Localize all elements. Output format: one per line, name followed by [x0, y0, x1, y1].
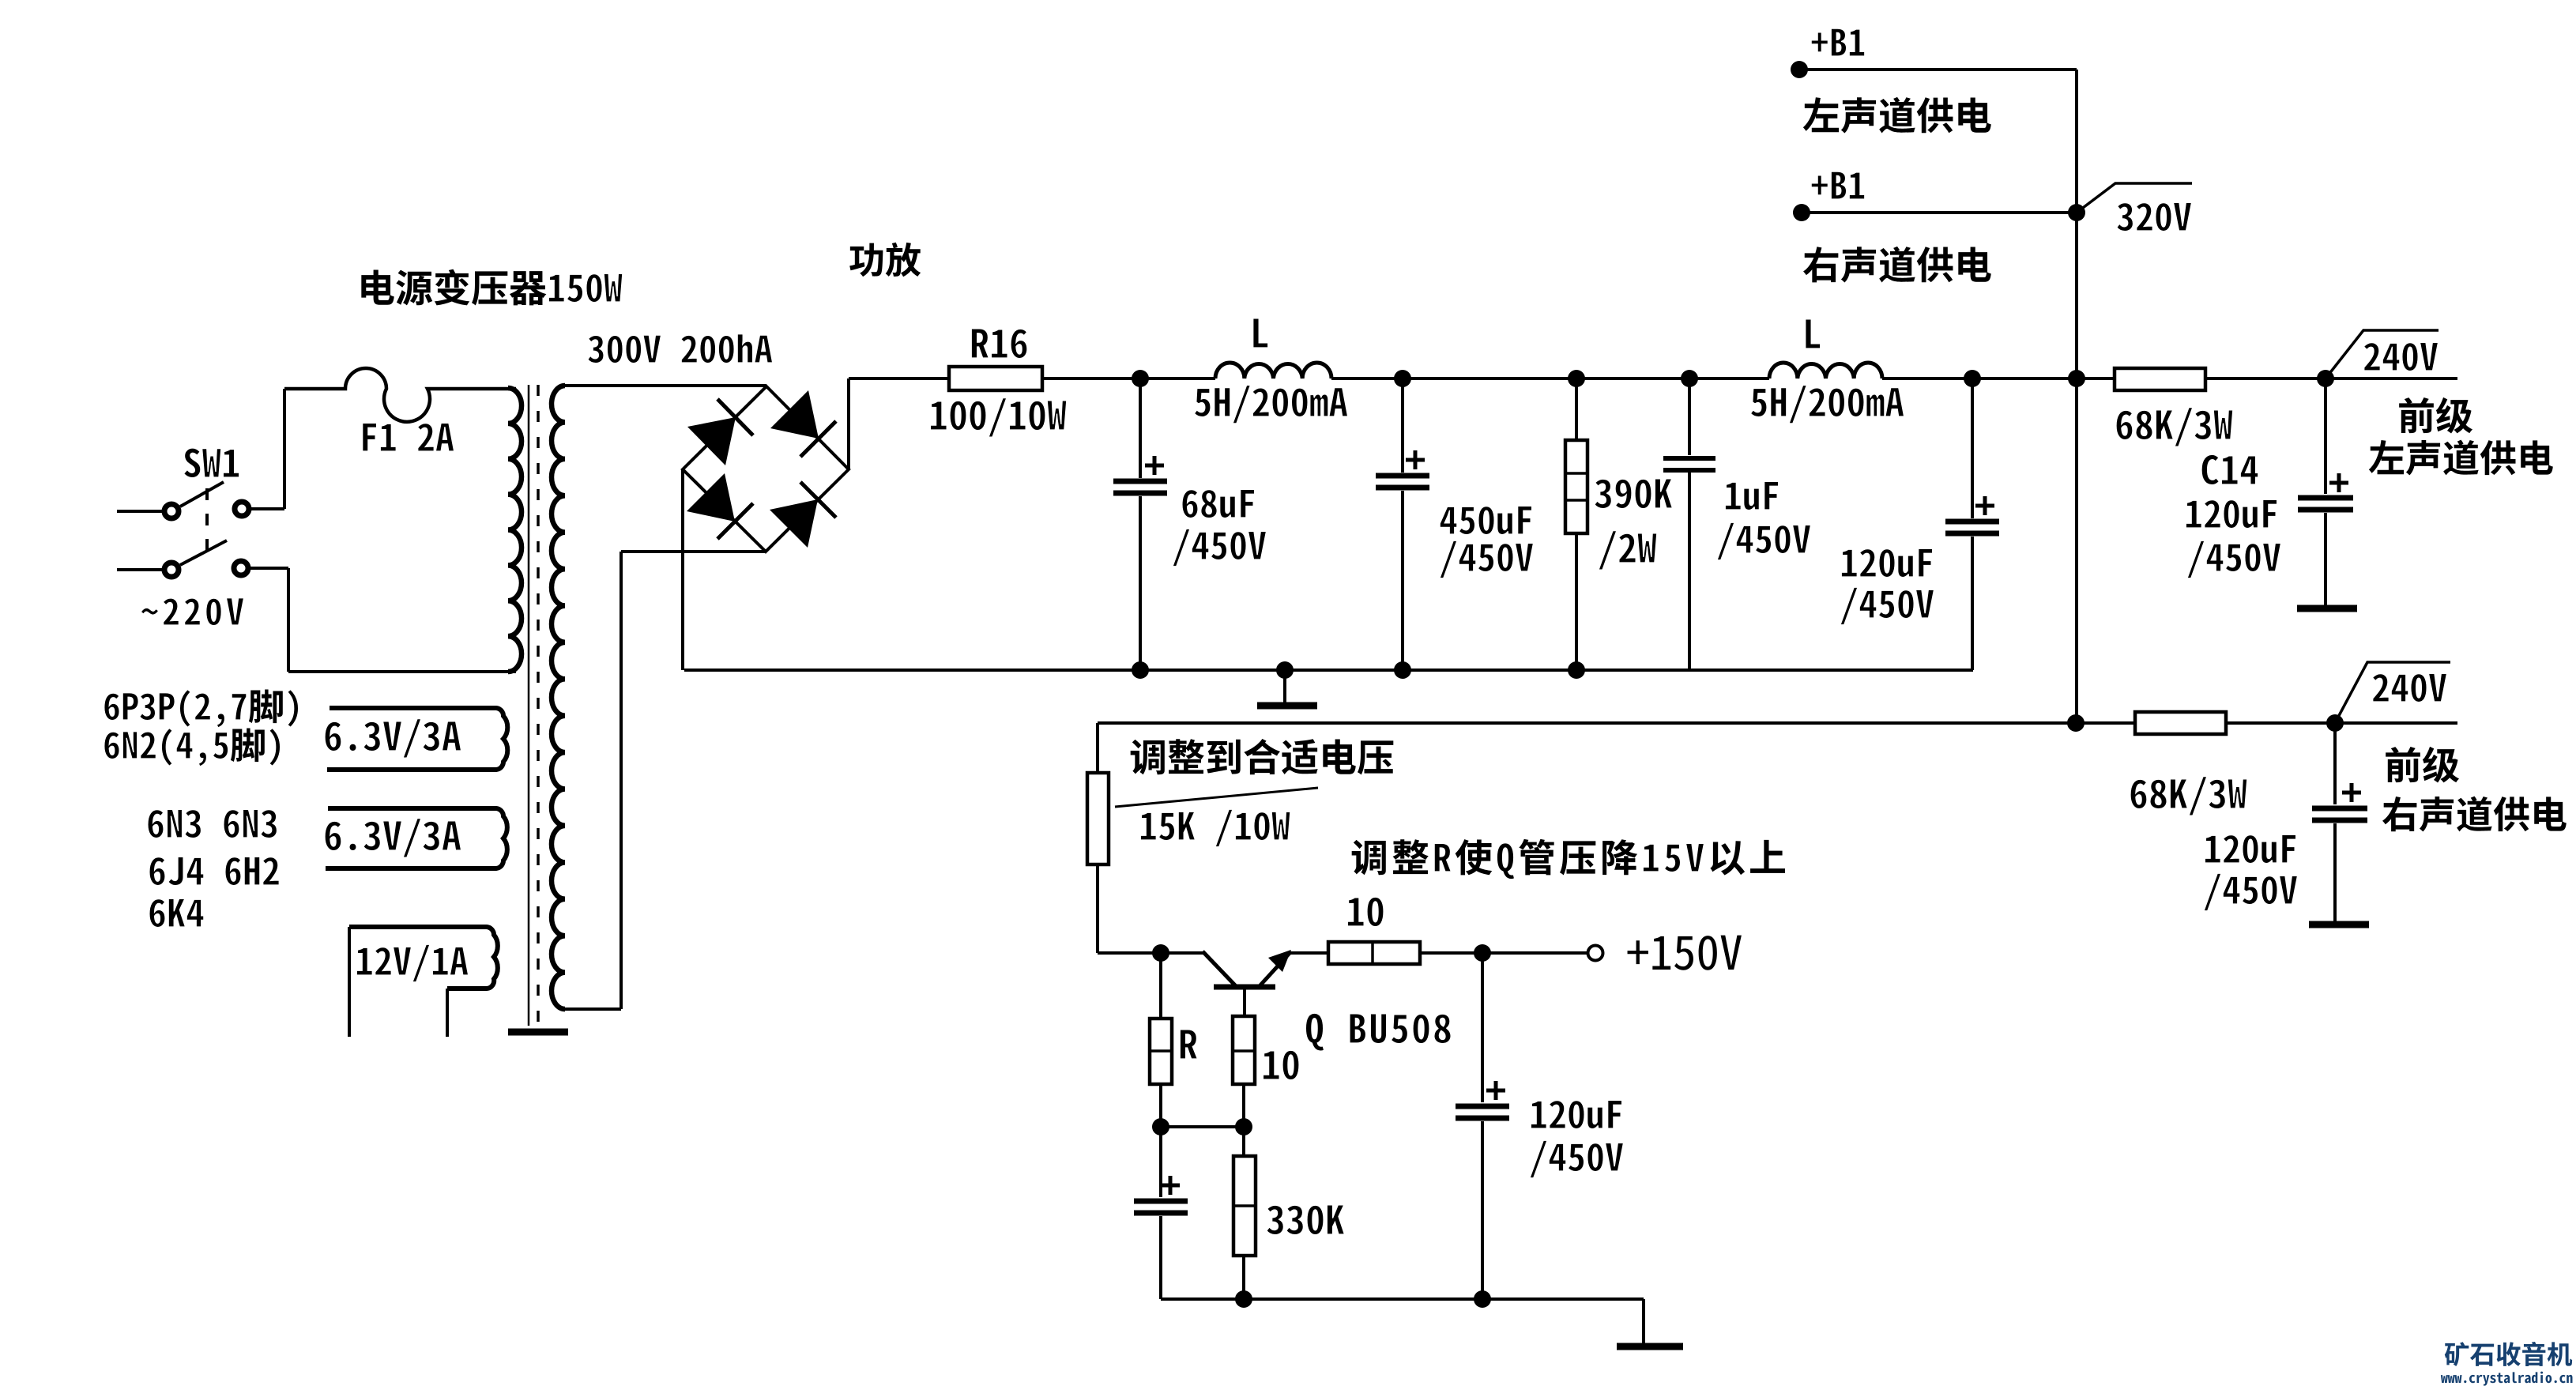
label /450V no.3: [1717, 522, 1811, 560]
label Q BU508: [1305, 1013, 1451, 1051]
watermark 矿石收音机: [2445, 1342, 2572, 1366]
transformer core ground bar: [508, 1029, 568, 1036]
label 6J4 6H2: [149, 857, 279, 885]
label /450V no.4: [1840, 587, 1934, 625]
capacitor C4 120uF/450V plates: [1945, 522, 1999, 533]
label 300V 200hA: [588, 334, 773, 363]
label +B1 no.2: [1811, 171, 1865, 199]
label /2W: [1599, 531, 1657, 571]
wire rail to C2: [1401, 379, 1404, 473]
ground bar: [1257, 702, 1317, 710]
wire output node to cap: [1481, 953, 1484, 1102]
junction bus/C1: [1132, 661, 1149, 679]
transformer primary winding: [508, 388, 522, 672]
label C14 /450V: [2187, 540, 2281, 578]
wire L2 to 68K no.1: [1882, 377, 2115, 380]
C14 polarity +: [2329, 473, 2348, 492]
label 5H/200mA no.1: [1194, 385, 1347, 424]
label 15K/10W: [1140, 809, 1290, 847]
wire regulator ground bus: [1161, 1297, 1644, 1301]
wire cap to ground: [2333, 823, 2337, 921]
heater winding 6.3V/3A no.2: [326, 808, 507, 868]
wire base resistor to divider: [1242, 1084, 1245, 1127]
wire rail to R16: [849, 377, 949, 380]
wire rail to C4: [1971, 379, 1974, 518]
wire SW1 pole1 to fuse: [249, 507, 284, 510]
node 240V annotation no.1: [2326, 330, 2439, 379]
ground bar regulator: [1617, 1343, 1683, 1350]
wire 330K to reg bus: [1242, 1256, 1245, 1299]
inductor L2: [1769, 363, 1882, 379]
label 240V no.1: [2363, 342, 2438, 371]
node 320V annotation: [2077, 183, 2192, 213]
switch SW1 pole 1 contact circles: [164, 504, 179, 518]
transformer T1 title 电源变压器150W: [548, 273, 623, 302]
wire +B1 no.1: [1799, 68, 2077, 71]
wire divider to 330K: [1242, 1127, 1245, 1156]
junction divider left: [1152, 1118, 1169, 1136]
label 240V no.2: [2372, 673, 2446, 702]
capacitor 120uF/450V right channel plates: [2312, 808, 2367, 820]
junction bus/390K: [1568, 661, 1585, 679]
label /450V no.2: [1440, 540, 1534, 578]
label 120uF right channel: [2205, 834, 2295, 863]
heater winding 12V/1A: [349, 927, 498, 989]
label 6K4: [149, 898, 204, 927]
capacitor right channel polarity +: [2342, 783, 2361, 802]
resistor 68K/3W no.2 body: [2135, 712, 2226, 734]
regulator cap polarity +: [1486, 1081, 1505, 1100]
wire rail to 390K: [1575, 379, 1578, 440]
label 10 base: [1263, 1050, 1299, 1079]
node 240V annotation no.2: [2335, 662, 2450, 723]
diode D1 (top-left): [687, 417, 736, 465]
wire bridge bottom vertex to left: [621, 550, 766, 553]
label 6.3V/3A no.2: [325, 819, 461, 858]
junction rail/C3: [1681, 370, 1698, 387]
switch SW1 gang link (dashed): [205, 488, 209, 555]
wire divider link: [1161, 1125, 1244, 1128]
terminal +150V circle: [1588, 946, 1603, 961]
wire cap to reg bus: [1159, 1216, 1162, 1299]
label 10 series: [1347, 897, 1384, 926]
label 68K/3W no.2: [2130, 777, 2247, 816]
wire primary bottom return: [288, 670, 516, 673]
mains input lead top: [117, 510, 164, 513]
wire reg bus to ground: [1642, 1299, 1645, 1343]
capacitor C3 1uF/450V plates: [1663, 458, 1715, 470]
junction rail/C1: [1132, 370, 1149, 387]
switch SW1 pole 2 lever: [180, 540, 227, 565]
junction rail/320V riser: [2068, 370, 2085, 387]
wire up to bridge AC2: [620, 552, 623, 1009]
wire divider to cap: [1159, 1127, 1162, 1197]
junction 240V node no.2: [2326, 714, 2344, 732]
wire 240V no.2 to cap: [2333, 723, 2337, 804]
watermark url: [2441, 1372, 2573, 1386]
capacitor divider plates: [1134, 1201, 1188, 1213]
label 6.3V/3A no.1: [325, 719, 461, 759]
terminal +B1 no.2: [1793, 204, 1810, 221]
wire base down: [1243, 987, 1246, 1016]
resistor 10 (base) body: [1233, 1016, 1255, 1084]
label 6P3P(2,7脚): [104, 690, 299, 728]
diode D2 (top-right): [770, 390, 819, 439]
label 120uF no.1: [1841, 548, 1932, 577]
wire C2 to bus: [1401, 491, 1404, 670]
label 68uF: [1182, 489, 1255, 518]
wire C3 to bus: [1688, 473, 1691, 670]
junction reg bus/output cap: [1474, 1290, 1491, 1308]
resistor 15K/10W body: [1087, 773, 1109, 864]
label /450V no.1: [1173, 529, 1267, 567]
junction output cap: [1474, 944, 1491, 962]
ground bar C14: [2297, 605, 2357, 612]
wire rail to C3: [1688, 379, 1691, 455]
diode D3 (bottom-left): [687, 473, 735, 522]
label +B1 no.1: [1811, 28, 1865, 56]
wire R16 to L1: [1042, 377, 1215, 380]
heater winding 6.3V/3A no.1: [327, 708, 507, 770]
mains input lead bottom: [117, 568, 164, 571]
resistor R body: [1150, 1019, 1172, 1084]
label 5H/200mA no.2: [1750, 385, 1904, 424]
label 前级 no.2: [2386, 747, 2459, 783]
transformer core line (solid): [528, 385, 530, 1026]
wire emitter to 10ohm: [1288, 951, 1328, 955]
junction rail/C2: [1394, 370, 1411, 387]
inductor L1: [1215, 363, 1331, 379]
label 390K: [1595, 479, 1673, 509]
label /450V regulator: [1530, 1140, 1624, 1178]
label /450V right channel: [2204, 873, 2298, 911]
label 6N3 6N3: [148, 809, 277, 838]
C2 polarity +: [1406, 450, 1425, 469]
wire to +150V terminal: [1420, 951, 1587, 955]
label 320V: [2117, 202, 2192, 231]
wire up to fuse line: [283, 389, 286, 509]
junction divider right: [1235, 1118, 1252, 1136]
junction reg bus/330K: [1235, 1290, 1252, 1308]
wire 320V vertical rail: [2075, 70, 2078, 723]
wire bridge plus up to rail: [847, 379, 850, 469]
capacitor C2 450uF/450V plates: [1376, 476, 1429, 488]
C4 polarity +: [1975, 496, 1994, 515]
wire to collector node: [1098, 951, 1161, 955]
capacitor 120uF/450V regulator plates: [1456, 1106, 1509, 1118]
label L no.1: [1253, 318, 1268, 348]
wire C14 to ground: [2324, 513, 2327, 605]
label L no.2: [1806, 319, 1821, 348]
wire C1 to bus: [1139, 496, 1142, 670]
switch SW1 pole 2 contact circles: [164, 563, 179, 577]
junction 320V/+B1 no.2: [2068, 204, 2085, 221]
label +150V: [1628, 936, 1742, 970]
12V winding lead left: [348, 927, 351, 1037]
junction rail/C4: [1964, 370, 1981, 387]
ground bar right channel: [2309, 921, 2369, 928]
junction collector node: [1152, 944, 1169, 962]
label 450uF: [1440, 506, 1531, 534]
junction rail/390K: [1568, 370, 1585, 387]
label 6N2(4,5脚): [104, 729, 281, 766]
wire L1 to L2: [1331, 377, 1769, 380]
wire cap to reg bus: [1481, 1121, 1484, 1299]
capacitor C1 68uF/450V plates: [1113, 481, 1167, 493]
junction bus/C2: [1394, 661, 1411, 679]
junction bus/ground: [1276, 661, 1294, 679]
ground stub: [1283, 670, 1286, 702]
label C14 120uF: [2186, 499, 2277, 528]
label 左声道供电 no.1: [1803, 97, 1991, 134]
label 右声道供电 no.2: [2382, 797, 2567, 832]
capacitor C14 120uF/450V plates: [2298, 498, 2353, 510]
transformer core line (dashed): [537, 385, 540, 1029]
label 功放: [849, 243, 921, 277]
divider cap polarity +: [1161, 1176, 1180, 1195]
wire 240V node to C14: [2324, 379, 2327, 494]
wire 390K to bus: [1575, 533, 1578, 670]
label 1uF: [1725, 481, 1778, 510]
label F1 2A: [363, 423, 454, 451]
wire ground bus: [684, 669, 1973, 672]
label 前级 no.1: [2399, 397, 2472, 434]
wire down to primary return: [287, 568, 290, 672]
wire SW1 pole2 right: [249, 567, 288, 570]
resistor 68K/3W no.1 body: [2115, 368, 2205, 390]
junction 320V/lower line: [2067, 714, 2085, 732]
label 左声道供电 no.2: [2369, 440, 2553, 476]
transformer HV secondary winding 300V: [552, 386, 565, 1009]
label 调整到合适电压: [1131, 739, 1394, 774]
label C14: [2201, 454, 2258, 484]
wire 15K down: [1096, 864, 1099, 953]
wire +B1 no.2: [1802, 211, 2077, 214]
resistor R16 body: [949, 367, 1042, 390]
wire rail to C1: [1139, 379, 1142, 478]
switch SW1 label: [184, 448, 239, 478]
label 12V/1A: [356, 944, 468, 982]
label 330K: [1267, 1205, 1345, 1235]
junction 240V node no.1: [2317, 370, 2334, 387]
resistor 330K body: [1233, 1156, 1256, 1256]
wire 68K no.1 to 240V output: [2205, 377, 2457, 380]
annotation line 调整到合适电压: [1115, 788, 1318, 807]
wire lower 240V line: [1098, 721, 2457, 725]
label 调整R使Q管压降15V以上: [1434, 843, 1704, 879]
bridge rectifier diamond: [683, 386, 849, 552]
label R: [1180, 1030, 1197, 1059]
label 100/10W: [930, 398, 1066, 437]
wire bridge minus down to bus: [681, 469, 684, 670]
terminal +B1 no.1: [1791, 61, 1808, 78]
transistor Q BU508: [1161, 951, 1204, 955]
C1 polarity +: [1145, 456, 1164, 475]
12V winding lead right: [446, 989, 449, 1037]
switch SW1 pole 1 lever: [180, 482, 224, 507]
label 120uF regulator: [1531, 1100, 1621, 1128]
diode D4 (bottom-right): [770, 499, 818, 548]
wire down to 15K: [1096, 723, 1099, 773]
wire secondary top to bridge: [561, 384, 766, 387]
label ~220V: [141, 598, 243, 626]
wire C4 to bus end: [1971, 537, 1974, 670]
label 68K/3W no.1: [2116, 408, 2233, 447]
wire R to divider: [1159, 1084, 1162, 1127]
resistor 390K/2W body: [1565, 440, 1587, 533]
fuse F1 (wave symbol): [284, 368, 516, 422]
label R16: [971, 329, 1027, 359]
wire secondary bottom: [561, 1007, 621, 1011]
wire node to R: [1159, 953, 1162, 1019]
label 右声道供电 no.1: [1803, 247, 1991, 283]
resistor 10 (series) body: [1328, 942, 1420, 964]
